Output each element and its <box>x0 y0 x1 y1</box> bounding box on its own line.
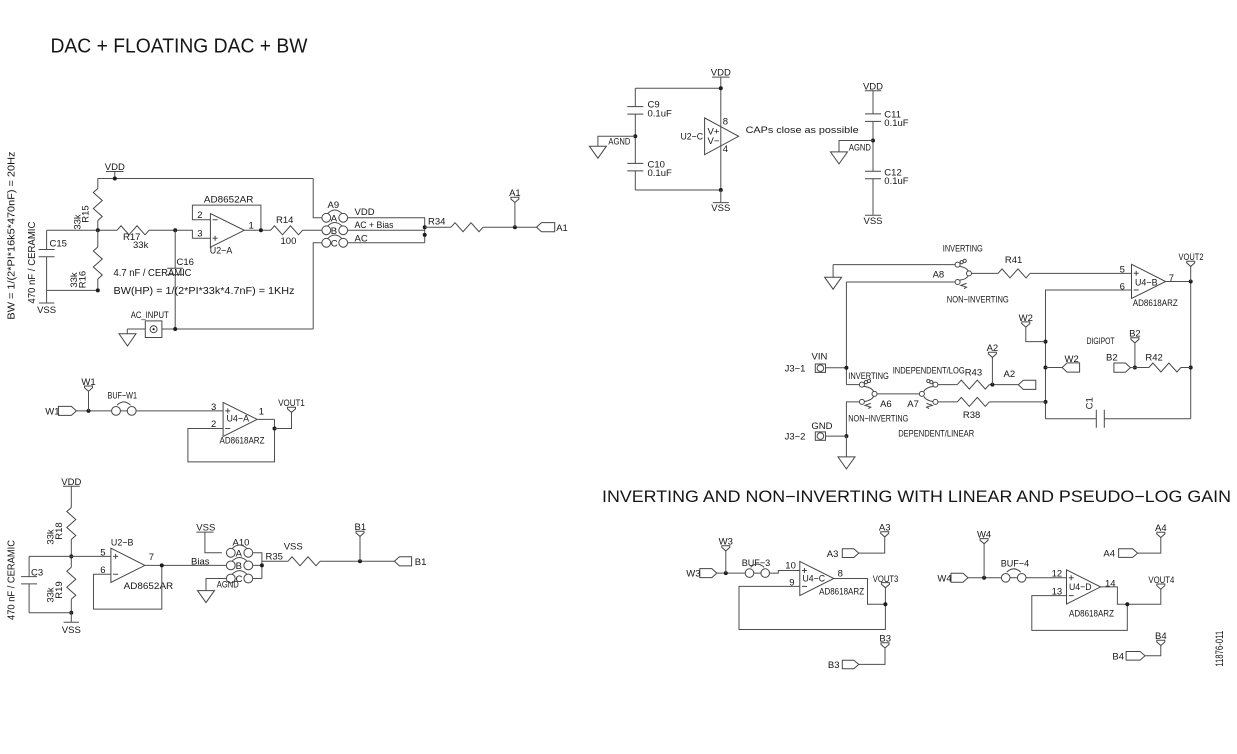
svg-text:BW = 1/(2*PI*16k5*470nF) = 20H: BW = 1/(2*PI*16k5*470nF) = 20Hz <box>6 152 17 320</box>
svg-text:10: 10 <box>785 560 796 571</box>
svg-text:VOUT2: VOUT2 <box>1179 252 1204 263</box>
svg-text:DIGIPOT: DIGIPOT <box>1087 336 1115 347</box>
svg-text:0.1uF: 0.1uF <box>884 118 908 129</box>
svg-text:AC: AC <box>355 234 368 245</box>
svg-text:B1: B1 <box>354 522 366 533</box>
svg-text:B1: B1 <box>415 557 427 568</box>
svg-text:A1: A1 <box>509 188 521 199</box>
svg-text:B4: B4 <box>1112 652 1124 663</box>
svg-text:DAC + FLOATING DAC + BW: DAC + FLOATING DAC + BW <box>51 36 308 58</box>
svg-text:A1: A1 <box>556 223 568 234</box>
svg-text:INVERTING AND NON−INVERTING WI: INVERTING AND NON−INVERTING WITH LINEAR … <box>602 488 1231 506</box>
svg-text:VOUT4: VOUT4 <box>1148 575 1174 586</box>
svg-text:U2−B: U2−B <box>111 537 133 548</box>
svg-text:100: 100 <box>281 236 297 247</box>
svg-text:A: A <box>331 213 338 224</box>
svg-text:J3−1: J3−1 <box>785 363 806 374</box>
svg-text:INDEPENDENT/LOG: INDEPENDENT/LOG <box>893 365 965 376</box>
svg-text:0.1uF: 0.1uF <box>648 108 672 119</box>
svg-text:C: C <box>331 238 338 249</box>
svg-text:4: 4 <box>723 144 728 155</box>
svg-text:VSS: VSS <box>711 203 730 214</box>
svg-text:A2: A2 <box>1004 369 1016 380</box>
svg-text:B2: B2 <box>1106 352 1118 363</box>
svg-text:W1: W1 <box>45 406 59 417</box>
svg-text:W1: W1 <box>81 377 95 388</box>
svg-text:A: A <box>236 548 243 559</box>
svg-text:BUF−3: BUF−3 <box>742 558 771 569</box>
svg-text:VIN: VIN <box>812 351 828 362</box>
svg-text:BW(HP) = 1/(2*PI*33k*4.7nF) =: BW(HP) = 1/(2*PI*33k*4.7nF) = 1KHz <box>114 285 295 297</box>
svg-text:W3: W3 <box>686 569 700 580</box>
svg-text:BUF−W1: BUF−W1 <box>108 390 138 401</box>
svg-text:U4−A: U4−A <box>227 414 250 425</box>
svg-text:VSS: VSS <box>62 625 81 636</box>
svg-text:U4−D: U4−D <box>1069 582 1092 593</box>
svg-text:VOUT1: VOUT1 <box>278 398 305 409</box>
svg-text:B3: B3 <box>879 634 891 645</box>
svg-text:C15: C15 <box>50 238 67 249</box>
svg-text:AD8618ARZ: AD8618ARZ <box>819 587 864 598</box>
svg-text:J3−2: J3−2 <box>785 432 806 443</box>
svg-text:W4: W4 <box>937 573 951 584</box>
svg-text:NON−INVERTING: NON−INVERTING <box>848 414 908 425</box>
svg-text:AGND: AGND <box>849 142 871 153</box>
svg-text:W4: W4 <box>977 530 991 541</box>
svg-text:AD8652AR: AD8652AR <box>204 194 254 205</box>
svg-text:A4: A4 <box>1103 549 1115 560</box>
svg-text:R14: R14 <box>276 215 293 226</box>
svg-text:A2: A2 <box>987 343 999 354</box>
svg-text:B4: B4 <box>1155 631 1167 642</box>
svg-text:A4: A4 <box>1155 523 1167 534</box>
svg-text:VSS: VSS <box>284 542 303 553</box>
svg-text:R34: R34 <box>428 217 445 228</box>
svg-text:C3: C3 <box>31 568 43 579</box>
svg-text:Bias: Bias <box>191 556 210 567</box>
svg-text:R35: R35 <box>266 551 283 562</box>
svg-text:V−: V− <box>708 136 720 147</box>
svg-text:33k: 33k <box>69 272 80 288</box>
svg-text:3: 3 <box>197 229 202 240</box>
svg-text:33k: 33k <box>46 529 57 545</box>
svg-text:U2−A: U2−A <box>210 246 233 257</box>
svg-text:6: 6 <box>1120 281 1125 292</box>
svg-text:11876-011: 11876-011 <box>1214 631 1226 667</box>
svg-text:R42: R42 <box>1145 352 1162 363</box>
svg-text:A7: A7 <box>907 399 919 410</box>
svg-text:B: B <box>331 226 337 237</box>
svg-text:VSS: VSS <box>863 216 882 227</box>
svg-text:INVERTING: INVERTING <box>943 244 983 255</box>
svg-text:NON−INVERTING: NON−INVERTING <box>947 294 1009 305</box>
svg-text:AD8652AR: AD8652AR <box>124 581 174 592</box>
svg-text:W2: W2 <box>1065 354 1079 365</box>
svg-text:VDD: VDD <box>355 207 375 218</box>
svg-text:0.1uF: 0.1uF <box>648 168 672 179</box>
svg-text:B3: B3 <box>828 660 840 671</box>
svg-text:33k: 33k <box>46 587 57 603</box>
svg-text:470 nF / CERAMIC: 470 nF / CERAMIC <box>7 540 18 620</box>
svg-text:CAPs close as possible: CAPs close as possible <box>746 125 859 136</box>
svg-text:7: 7 <box>1169 273 1174 284</box>
svg-text:AGND: AGND <box>217 580 239 591</box>
svg-text:W3: W3 <box>719 537 733 548</box>
svg-text:DEPENDENT/LINEAR: DEPENDENT/LINEAR <box>898 428 974 439</box>
svg-text:1: 1 <box>259 406 264 417</box>
svg-text:AGND: AGND <box>608 136 630 147</box>
svg-text:R38: R38 <box>963 410 980 421</box>
svg-text:5: 5 <box>100 547 105 558</box>
svg-text:GND: GND <box>811 421 832 432</box>
svg-text:5: 5 <box>1120 264 1125 275</box>
svg-text:C1: C1 <box>1084 397 1095 409</box>
svg-text:U4−C: U4−C <box>803 574 826 585</box>
svg-text:8: 8 <box>723 116 728 127</box>
svg-text:R43: R43 <box>965 367 982 378</box>
svg-text:AD8618ARZ: AD8618ARZ <box>220 436 265 447</box>
svg-text:14: 14 <box>1105 578 1116 589</box>
svg-text:A3: A3 <box>879 523 891 534</box>
svg-text:U4−B: U4−B <box>1135 278 1158 289</box>
svg-text:A3: A3 <box>827 549 839 560</box>
svg-text:AD8618ARZ: AD8618ARZ <box>1069 608 1114 619</box>
svg-text:A6: A6 <box>880 399 892 410</box>
svg-text:470 nF / CERAMIC: 470 nF / CERAMIC <box>27 222 38 304</box>
svg-text:7: 7 <box>149 552 154 563</box>
svg-text:AD8618ARZ: AD8618ARZ <box>1133 298 1178 309</box>
svg-text:VOUT3: VOUT3 <box>873 574 899 585</box>
svg-text:B: B <box>236 561 242 572</box>
svg-text:AC + Bias: AC + Bias <box>355 220 394 231</box>
svg-text:AC_INPUT: AC_INPUT <box>131 310 169 321</box>
svg-text:A9: A9 <box>328 200 340 211</box>
svg-text:VSS: VSS <box>37 305 56 316</box>
svg-text:INVERTING: INVERTING <box>848 371 889 382</box>
svg-text:3: 3 <box>211 402 216 413</box>
svg-text:R41: R41 <box>1005 255 1022 266</box>
svg-text:33k: 33k <box>73 214 84 230</box>
svg-text:12: 12 <box>1052 568 1063 579</box>
svg-text:A8: A8 <box>933 270 945 281</box>
svg-text:BUF−4: BUF−4 <box>1001 559 1029 570</box>
svg-text:0.1uF: 0.1uF <box>884 176 908 187</box>
svg-text:33k: 33k <box>133 240 149 251</box>
svg-text:U2−C: U2−C <box>681 132 704 143</box>
svg-text:4.7 nF / CERAMIC: 4.7 nF / CERAMIC <box>114 267 192 279</box>
